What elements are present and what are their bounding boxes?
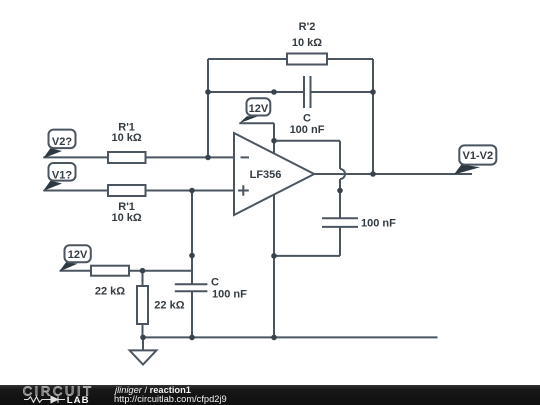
svg-text:C: C <box>303 113 311 125</box>
svg-text:LF356: LF356 <box>250 169 282 181</box>
svg-text:100 nF: 100 nF <box>290 124 325 136</box>
svg-text:10 kΩ: 10 kΩ <box>292 37 322 49</box>
svg-text:10 kΩ: 10 kΩ <box>111 212 141 224</box>
svg-text:V1?: V1? <box>52 169 72 181</box>
svg-text:LAB: LAB <box>67 395 90 405</box>
svg-text:22 kΩ: 22 kΩ <box>95 285 125 297</box>
svg-text:C: C <box>211 277 219 289</box>
svg-text:R'2: R'2 <box>299 21 316 33</box>
svg-text:100 nF: 100 nF <box>212 289 247 301</box>
svg-text:12V: 12V <box>249 103 269 115</box>
svg-text:V2?: V2? <box>52 136 72 148</box>
svg-text:V1-V2: V1-V2 <box>463 150 494 162</box>
svg-text:100 nF: 100 nF <box>361 218 396 230</box>
svg-text:12V: 12V <box>68 249 88 261</box>
svg-text:10 kΩ: 10 kΩ <box>111 132 141 144</box>
svg-text:22 kΩ: 22 kΩ <box>154 300 184 312</box>
